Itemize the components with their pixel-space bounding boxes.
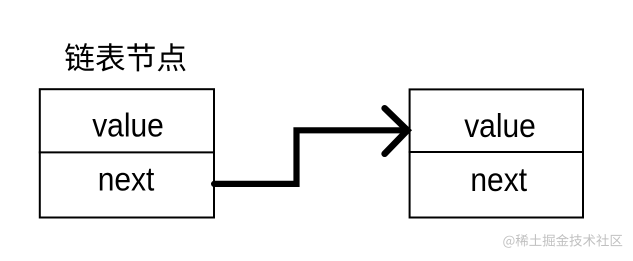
node box 2 (right linked-list node) [410, 89, 583, 217]
title 链表节点 [65, 43, 185, 71]
watermark @稀土掘金技术社区 [503, 234, 622, 248]
arrow head chevron [385, 108, 408, 154]
svg-text:next: next [98, 160, 155, 198]
svg-text:value: value [464, 106, 536, 144]
svg-text:value: value [92, 106, 164, 144]
node 1 divider line [39, 151, 215, 153]
node box 1 (left linked-list node) [40, 89, 214, 217]
arrow next pointer: shaft from node1.next to node2 [214, 130, 403, 184]
svg-text:next: next [470, 160, 527, 198]
node 2 divider line [409, 151, 584, 153]
